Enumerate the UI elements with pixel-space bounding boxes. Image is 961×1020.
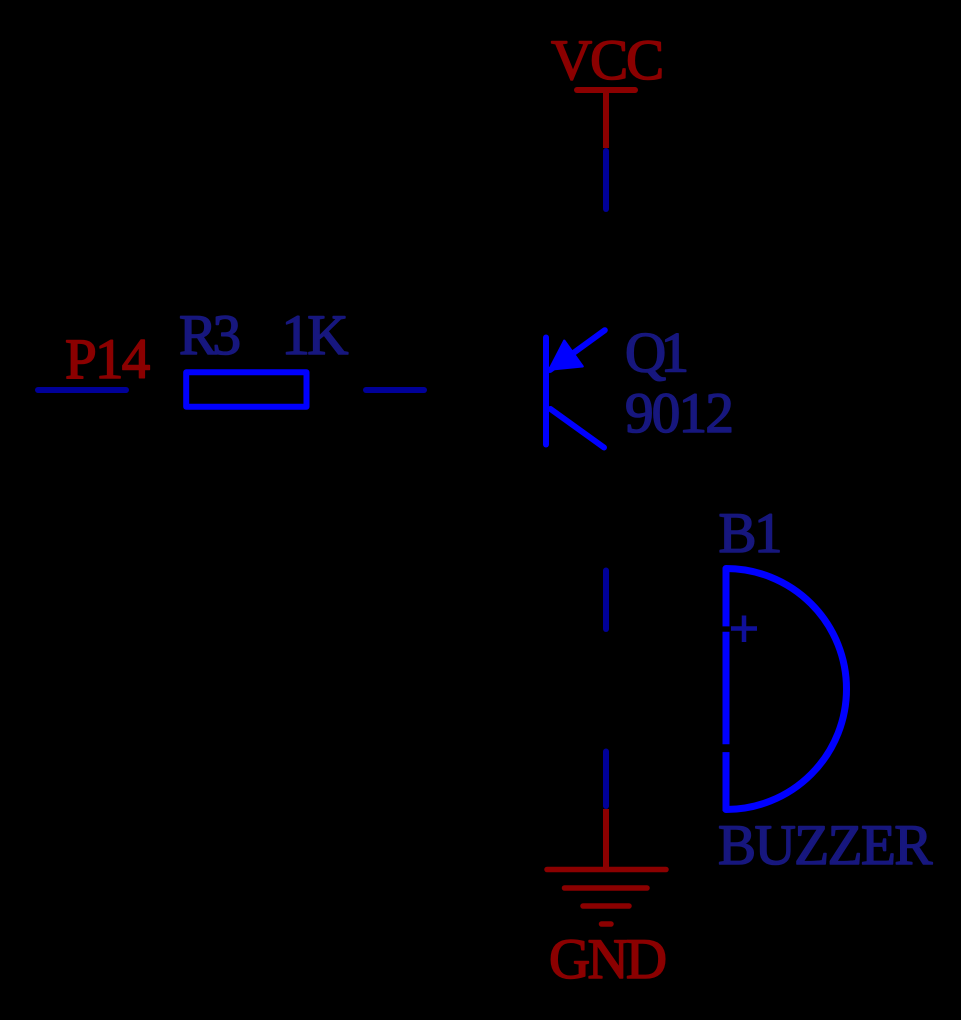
ground stub xyxy=(603,809,609,869)
buzzer B1 dome arc xyxy=(726,569,847,810)
ground bar 2 xyxy=(565,885,648,891)
transistor Q1 emitter arrow xyxy=(550,341,583,370)
buzzer B1 left edge lower segment xyxy=(723,752,730,811)
buzzer B1 plus sign xyxy=(731,616,757,643)
svg-text:BUZZER: BUZZER xyxy=(718,814,932,877)
svg-text:GND: GND xyxy=(549,928,665,991)
buzzer B1 left edge upper segment xyxy=(723,568,730,627)
wire Q1 collector to buzzer xyxy=(603,571,609,630)
transistor Q1 collector line xyxy=(551,409,605,448)
ground bar 4 xyxy=(602,921,612,927)
svg-text:1K: 1K xyxy=(282,304,349,367)
svg-text:9012: 9012 xyxy=(625,382,732,445)
wire buzzer to GND xyxy=(603,752,609,807)
svg-text:Q1: Q1 xyxy=(625,322,687,385)
ground bar 1 xyxy=(547,867,666,873)
resistor R3 body xyxy=(186,372,306,407)
power port VCC stub xyxy=(603,90,609,148)
svg-text:P14: P14 xyxy=(65,328,150,391)
wire P14 xyxy=(38,387,126,393)
svg-text:R3: R3 xyxy=(179,304,240,367)
transistor Q1 base line xyxy=(543,338,549,445)
ground bar 3 xyxy=(583,903,629,909)
transistor Q1 emitter line xyxy=(550,330,605,370)
power port VCC bar xyxy=(577,87,635,93)
buzzer B1 left edge middle segment xyxy=(723,632,730,745)
wire R3 to Q1 base xyxy=(366,387,424,393)
svg-text:VCC: VCC xyxy=(551,29,662,92)
svg-text:B1: B1 xyxy=(719,502,781,565)
wire VCC to Q1 emitter xyxy=(603,151,609,209)
